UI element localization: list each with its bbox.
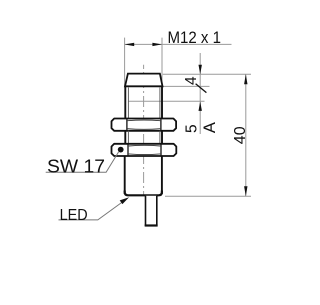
svg-text:40: 40 — [232, 126, 249, 144]
arrow up to plane A — [199, 101, 202, 111]
M12 dimension line — [125, 43, 232, 45]
connector stub — [145, 196, 158, 226]
arrow down to cap top — [199, 65, 202, 75]
dimension line 40 — [245, 74, 247, 196]
thread body upper — [125, 86, 162, 119]
M12 arrow left — [125, 43, 135, 46]
svg-text:SW 17: SW 17 — [47, 156, 105, 176]
sensor cap (sensing face) — [125, 74, 163, 87]
arrow up (40 top) — [244, 74, 247, 84]
svg-text:M12 x 1: M12 x 1 — [168, 28, 222, 47]
thread between nuts — [125, 131, 162, 144]
svg-text:LED: LED — [60, 207, 88, 224]
M12 dimension extension line right — [161, 38, 163, 87]
dimension line 4/5 — [199, 53, 201, 134]
svg-text:5: 5 — [183, 124, 200, 133]
leader SW 17 — [46, 152, 119, 172]
svg-text:A: A — [201, 122, 219, 133]
arrow down (40 bottom) — [244, 186, 247, 196]
centerline (vertical axis) — [143, 65, 145, 196]
lower body — [125, 156, 162, 195]
M12 dimension extension line left — [124, 38, 126, 87]
extension line body bottom — [165, 195, 251, 197]
hex nut 1 — [112, 119, 177, 131]
tick at cap bottom — [196, 84, 207, 93]
svg-text:4: 4 — [183, 76, 200, 85]
leader LED with arrow — [59, 197, 130, 220]
extension line top (cap top) — [163, 73, 251, 75]
extension line cap bottom — [163, 85, 210, 87]
M12 arrow right — [152, 43, 162, 46]
node A reference plane line — [129, 100, 205, 102]
LED dot — [118, 147, 124, 153]
hex body SW 17 — [112, 144, 177, 156]
